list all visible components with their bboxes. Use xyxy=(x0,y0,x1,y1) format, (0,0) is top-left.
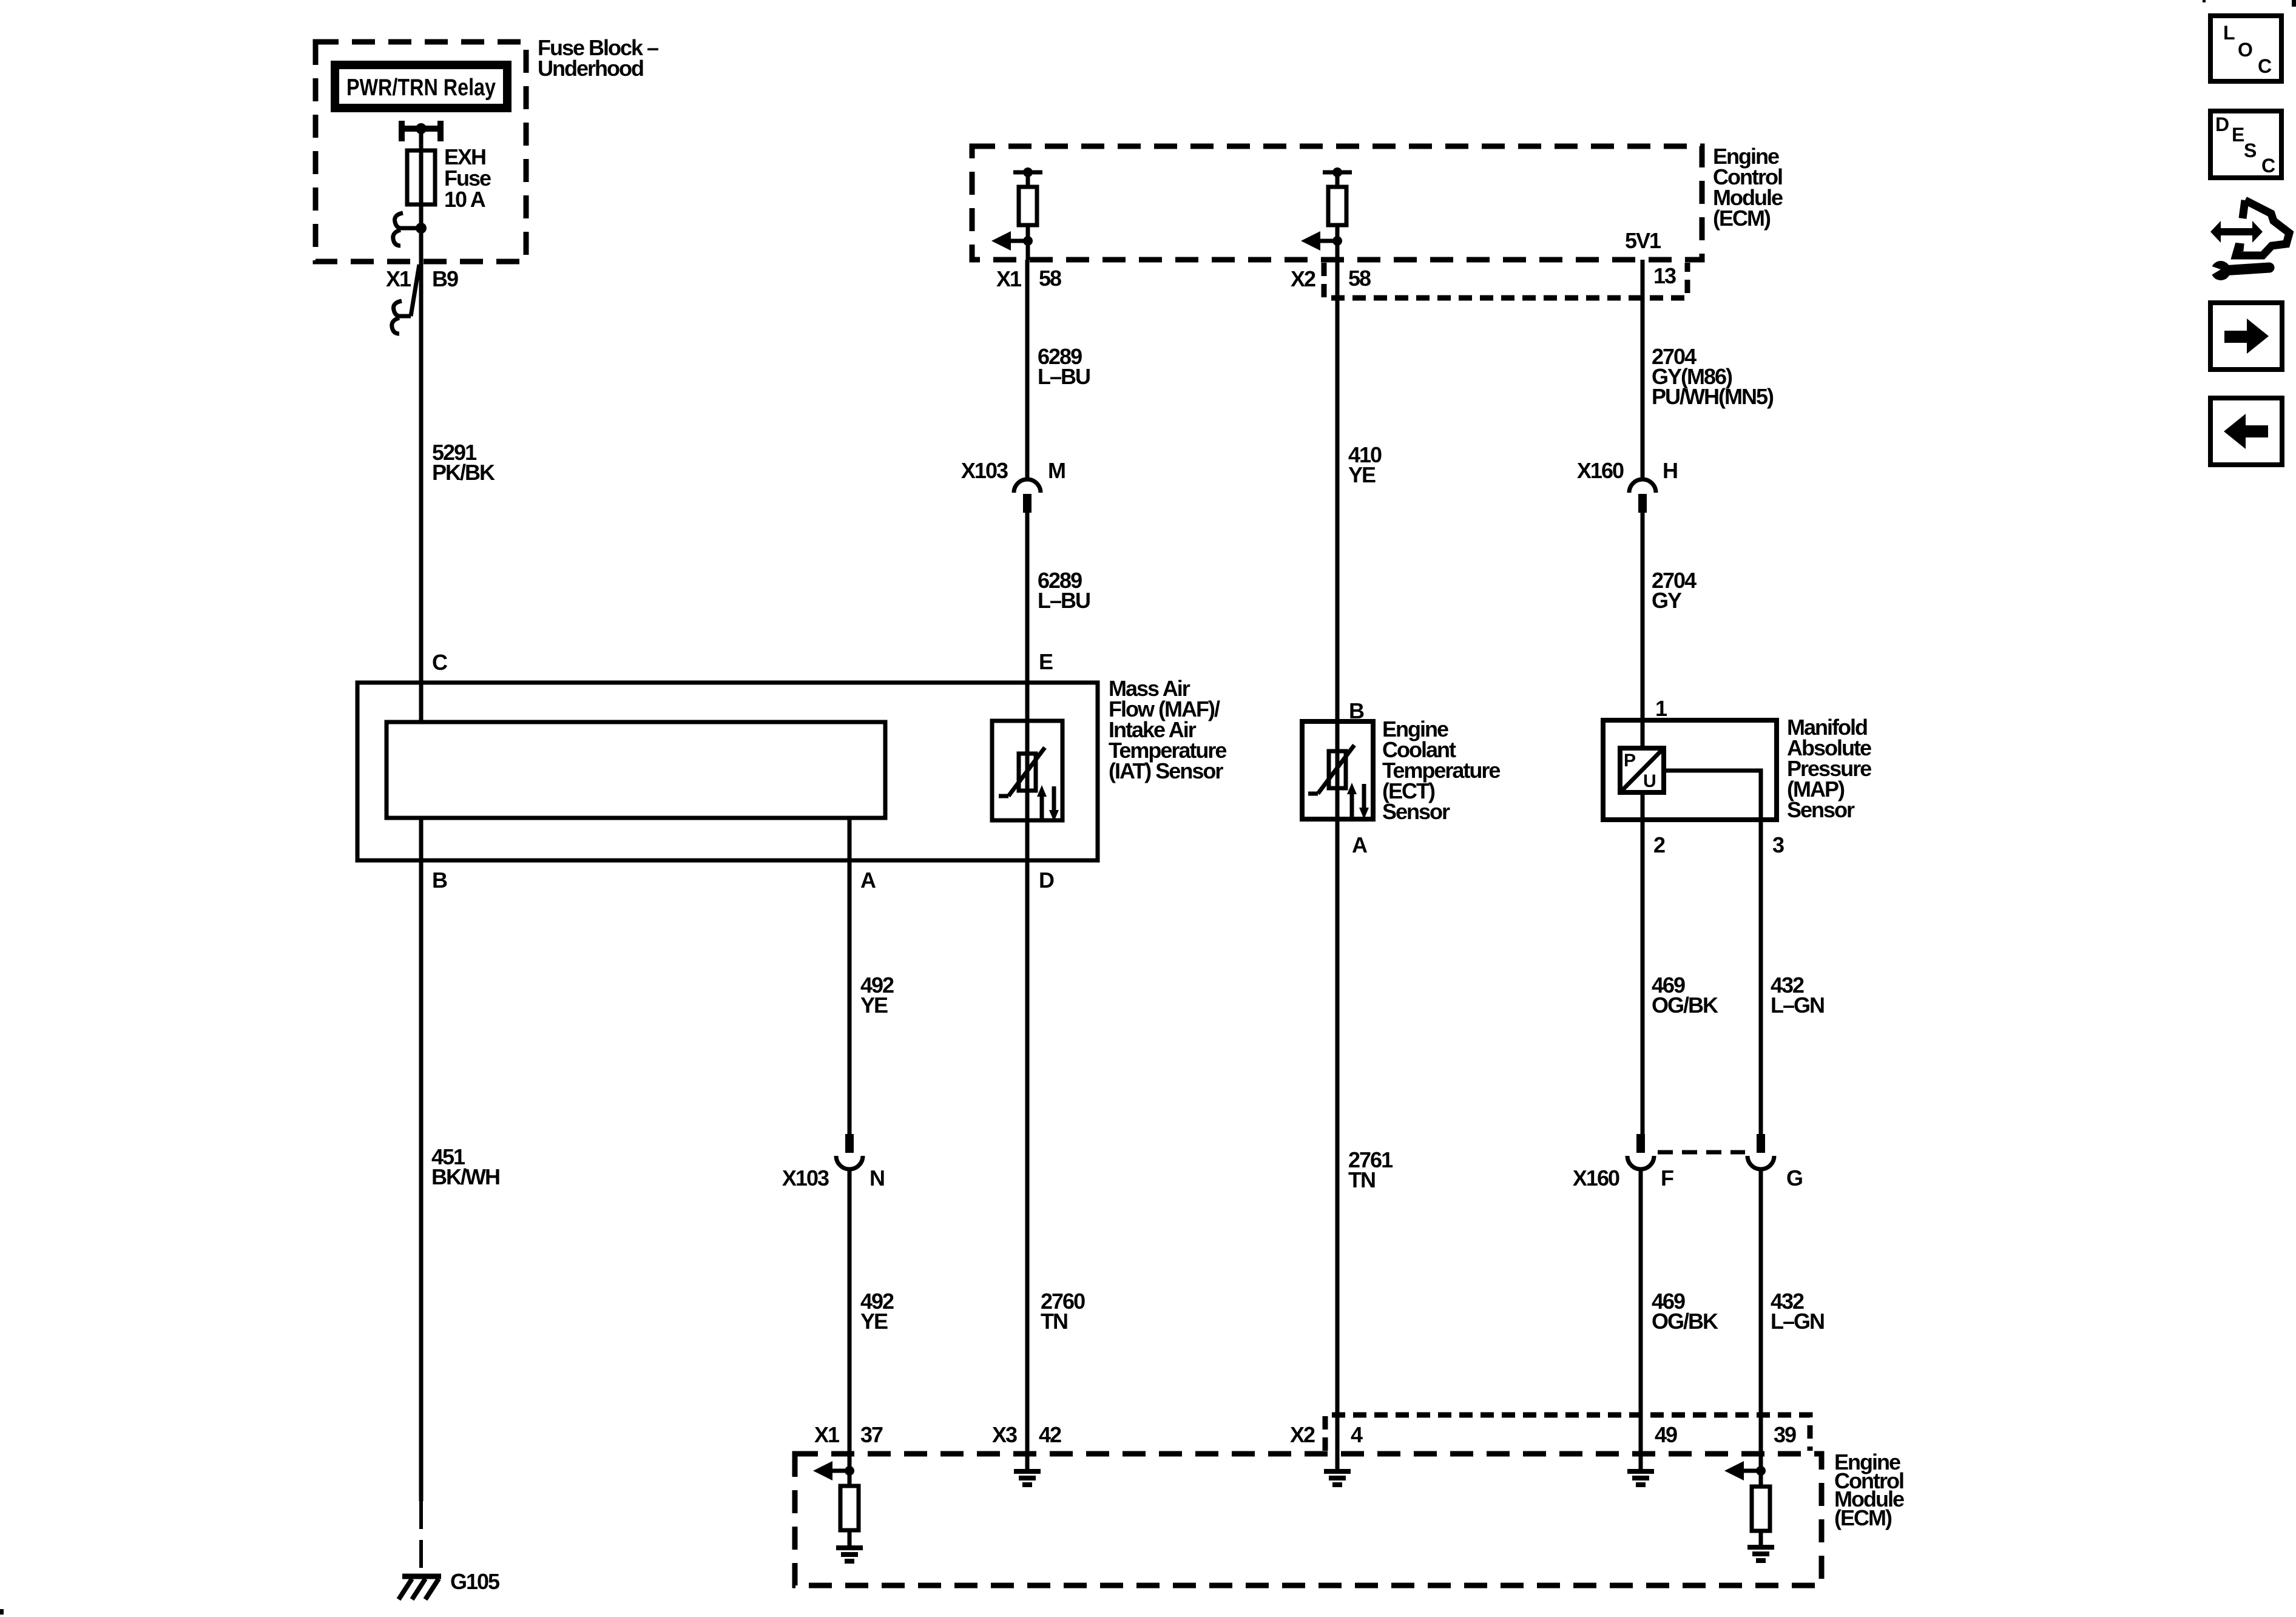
icon DESC box xyxy=(2210,111,2281,178)
svg-text:10 A: 10 A xyxy=(444,187,486,212)
wire X160 F to ECM 49 xyxy=(1639,1170,1643,1454)
wire G to ECM 39 xyxy=(1759,1170,1763,1471)
svg-text:M: M xyxy=(1048,458,1065,483)
svg-text:PK/BK: PK/BK xyxy=(432,460,495,485)
MAP pressure transducer P/U xyxy=(1620,748,1664,792)
wire B from MAF inner box down xyxy=(419,818,424,1501)
inner dotted connector box X2/4/49/39 xyxy=(1325,1415,1810,1451)
icon LOC box xyxy=(2210,16,2281,81)
svg-text:B: B xyxy=(432,868,447,893)
MAP internal link to pin 3 xyxy=(1664,771,1761,820)
page artifact dot top (near icons) xyxy=(2203,0,2206,2)
connector X103 N xyxy=(836,1134,863,1169)
MAF/IAT sensor outer box xyxy=(357,683,1098,860)
svg-text:X1: X1 xyxy=(386,266,411,291)
wire MAP pin3 down xyxy=(1759,820,1763,1134)
svg-text:58: 58 xyxy=(1039,266,1061,291)
svg-text:X160: X160 xyxy=(1573,1166,1619,1190)
svg-text:BK/WH: BK/WH xyxy=(431,1164,499,1189)
MAP sensor box xyxy=(1603,720,1777,820)
svg-text:Underhood: Underhood xyxy=(538,56,643,81)
engine control module dashed enclosure top xyxy=(972,146,1702,260)
page artifact mark top-right xyxy=(2292,0,2296,7)
ECT thermistor element xyxy=(1308,745,1354,794)
ECM ground at 49 xyxy=(1627,1454,1654,1485)
wire D from IAT down to connector xyxy=(1025,820,1030,1454)
fuse block underhood dashed enclosure xyxy=(316,42,526,262)
svg-text:X2: X2 xyxy=(1290,1422,1315,1447)
svg-text:G: G xyxy=(1786,1166,1802,1190)
junction dot and signal arrow at X2-58 xyxy=(1332,236,1342,246)
svg-text:O: O xyxy=(2238,39,2253,61)
relay output terminal bracket xyxy=(399,121,444,141)
svg-text:D: D xyxy=(2215,113,2229,135)
dashed wire to G105 xyxy=(419,1501,423,1575)
relay PWR/TRN Relay xyxy=(335,65,507,108)
wire relay to fuse to splice xyxy=(419,129,424,228)
icon back arrow box xyxy=(2210,398,2282,465)
ECT sensor box xyxy=(1302,721,1373,819)
svg-text:L–BU: L–BU xyxy=(1038,588,1090,613)
wire X1-58 to X103 M xyxy=(1025,260,1030,479)
wire A from MAF inner box down to connector xyxy=(848,818,852,1134)
svg-text:L: L xyxy=(2223,22,2235,44)
svg-text:49: 49 xyxy=(1655,1422,1677,1447)
svg-text:P: P xyxy=(1624,751,1636,771)
page artifact dot bottom-left xyxy=(0,1609,4,1615)
wire E through IAT box xyxy=(1025,683,1030,820)
svg-text:X160: X160 xyxy=(1577,458,1624,483)
hook symbol at X1 B9 xyxy=(394,301,402,316)
svg-text:YE: YE xyxy=(860,993,888,1018)
ECM internal pull-up resistor at X1-58 xyxy=(1013,167,1042,260)
wire X103 M to MAF pin E xyxy=(1025,513,1030,683)
fuse EXH 10 A xyxy=(407,150,435,204)
svg-text:TN: TN xyxy=(1041,1309,1067,1334)
ECM ground at X2-4 xyxy=(1324,1454,1351,1485)
wire C to MAF inner box xyxy=(419,683,424,722)
svg-text:58: 58 xyxy=(1348,266,1371,291)
svg-text:42: 42 xyxy=(1039,1422,1061,1447)
svg-text:X103: X103 xyxy=(961,458,1008,483)
dashed tie between X160 F and G xyxy=(1658,1150,1745,1155)
wire 5V1 to X160 H xyxy=(1641,260,1645,479)
svg-text:L–GN: L–GN xyxy=(1771,1309,1824,1334)
wire MAP pin1 through transducer xyxy=(1641,720,1645,748)
svg-text:PU/WH(MN5): PU/WH(MN5) xyxy=(1652,384,1774,409)
svg-text:U: U xyxy=(1643,771,1656,791)
svg-text:(IAT) Sensor: (IAT) Sensor xyxy=(1109,758,1223,783)
junction dot at relay terminal xyxy=(416,123,427,134)
svg-text:X1: X1 xyxy=(814,1422,840,1447)
ECM internal at X1-37: junction arrow resistor ground xyxy=(813,1461,863,1561)
svg-text:A: A xyxy=(860,868,876,893)
svg-text:X1: X1 xyxy=(996,266,1022,291)
connector G xyxy=(1747,1134,1774,1169)
connector X103 M xyxy=(1014,479,1041,513)
icon forward arrow box xyxy=(2210,303,2282,370)
ECM ground at X3-42 xyxy=(1014,1454,1041,1485)
svg-text:5V1: 5V1 xyxy=(1625,228,1661,253)
wire X103 N to ECM X1-37 xyxy=(848,1170,852,1471)
svg-text:37: 37 xyxy=(860,1422,883,1447)
wire ECT sensor through box xyxy=(1335,260,1340,1454)
inner dotted connector box X2/13 xyxy=(1324,263,1687,298)
junction dot below fuse xyxy=(416,223,427,234)
svg-text:2: 2 xyxy=(1653,832,1665,857)
ECT up/down arrows xyxy=(1347,783,1369,819)
svg-text:X103: X103 xyxy=(782,1166,829,1190)
svg-text:GY: GY xyxy=(1652,588,1682,613)
svg-text:C: C xyxy=(2258,55,2272,77)
icon vehicle with double arrow and wrench xyxy=(2207,200,2289,280)
svg-text:L–BU: L–BU xyxy=(1038,364,1090,389)
svg-text:(ECM): (ECM) xyxy=(1713,206,1771,231)
connector X160 F xyxy=(1627,1134,1654,1169)
ECM internal at 39: junction arrow resistor ground xyxy=(1724,1461,1774,1561)
hook symbol upper xyxy=(395,213,403,228)
svg-text:OG/BK: OG/BK xyxy=(1652,993,1718,1018)
svg-text:E: E xyxy=(2232,124,2244,146)
svg-text:H: H xyxy=(1663,458,1677,483)
svg-text:B: B xyxy=(1349,698,1364,723)
svg-text:4: 4 xyxy=(1351,1422,1363,1447)
ground G105 xyxy=(399,1576,441,1599)
svg-text:Sensor: Sensor xyxy=(1382,799,1450,824)
svg-text:(ECM): (ECM) xyxy=(1834,1505,1892,1530)
svg-text:D: D xyxy=(1039,868,1054,893)
stub wire to hook at X1 B9 xyxy=(398,314,411,319)
svg-text:39: 39 xyxy=(1774,1422,1796,1447)
svg-text:3: 3 xyxy=(1772,832,1784,857)
svg-text:C: C xyxy=(432,650,448,675)
IAT thermistor box xyxy=(992,721,1062,820)
IAT up/down arrows xyxy=(1037,785,1059,822)
svg-text:L–GN: L–GN xyxy=(1771,993,1824,1018)
wire MAP pin2 down xyxy=(1641,792,1645,1134)
svg-text:TN: TN xyxy=(1348,1167,1375,1192)
svg-text:S: S xyxy=(2244,140,2257,161)
svg-text:N: N xyxy=(869,1166,884,1190)
stub wire to hook at junction xyxy=(399,226,421,231)
svg-text:1: 1 xyxy=(1655,696,1667,721)
hook symbol lower xyxy=(393,230,400,246)
svg-text:E: E xyxy=(1039,649,1053,674)
svg-text:X2: X2 xyxy=(1291,266,1315,291)
svg-text:OG/BK: OG/BK xyxy=(1652,1309,1718,1334)
svg-text:X3: X3 xyxy=(992,1422,1017,1447)
IAT thermistor element xyxy=(999,748,1045,796)
connector X160 H xyxy=(1629,479,1656,513)
engine control module dashed enclosure bottom xyxy=(795,1454,1822,1585)
svg-text:YE: YE xyxy=(860,1309,888,1334)
ECM internal pull-up resistor at X2-58 xyxy=(1323,167,1352,260)
wire X160 H to MAP pin 1 xyxy=(1641,513,1645,720)
wire fuse output down to MAF pin C xyxy=(419,228,424,683)
svg-text:C: C xyxy=(2261,155,2275,177)
svg-text:Sensor: Sensor xyxy=(1787,797,1855,822)
svg-text:YE: YE xyxy=(1348,462,1376,487)
MAF inner module box xyxy=(387,722,885,818)
svg-text:PWR/TRN Relay: PWR/TRN Relay xyxy=(346,75,496,101)
connector slash X1 B9 xyxy=(411,265,419,316)
junction dot and signal arrow at X1-58 xyxy=(1023,236,1033,246)
svg-text:A: A xyxy=(1352,832,1368,857)
svg-text:G105: G105 xyxy=(450,1569,500,1594)
svg-text:B9: B9 xyxy=(432,266,458,291)
svg-text:F: F xyxy=(1661,1166,1673,1190)
svg-text:13: 13 xyxy=(1653,263,1676,288)
